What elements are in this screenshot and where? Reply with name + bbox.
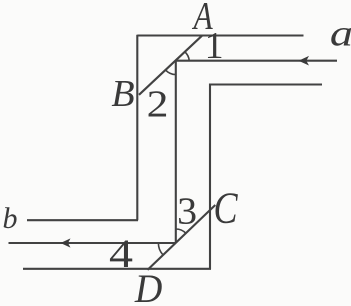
svg-text:B: B <box>111 73 134 115</box>
svg-text:2: 2 <box>147 83 169 125</box>
svg-text:1: 1 <box>205 25 224 67</box>
svg-text:C: C <box>213 183 238 232</box>
svg-text:3: 3 <box>177 190 197 232</box>
svg-text:D: D <box>134 267 162 306</box>
svg-text:a: a <box>330 14 351 55</box>
svg-text:b: b <box>3 202 18 235</box>
svg-text:4: 4 <box>109 232 133 276</box>
